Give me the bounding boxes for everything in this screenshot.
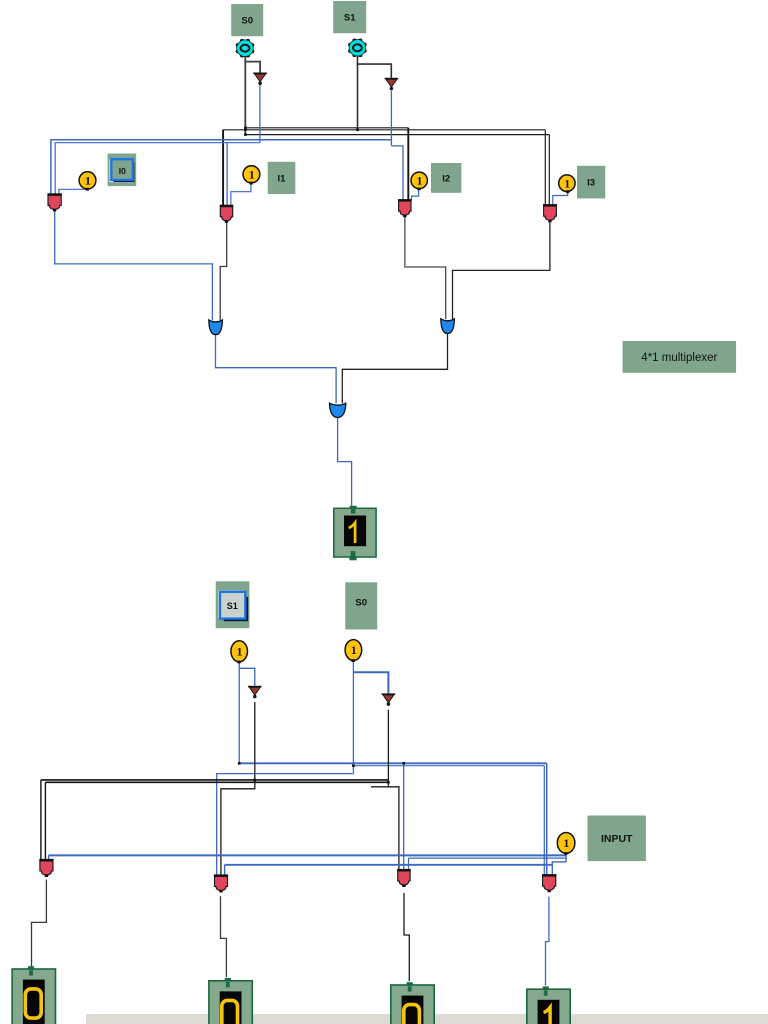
inverter W2 (S0') <box>382 693 396 706</box>
inverter V1 (S0') <box>253 73 267 86</box>
wire U3 output to OR2 <box>405 217 446 319</box>
switch S1 <box>349 39 367 57</box>
wire S1 branch to inverter <box>357 64 392 78</box>
wire U4 output to OR2 <box>453 221 550 319</box>
wire gate U3 select input <box>407 128 409 201</box>
svg-text:INPUT: INPUT <box>601 833 633 845</box>
AND gate U1 (I0) <box>47 193 61 211</box>
AND gate G2 <box>214 874 228 892</box>
wire OR3 output to display <box>338 418 352 508</box>
svg-text:S1: S1 <box>227 601 238 611</box>
wire INPUT to G4 <box>552 862 566 875</box>
source INPUT constant 1 <box>557 833 575 855</box>
svg-text:S1: S1 <box>344 13 356 24</box>
label S1 (top) <box>333 1 366 33</box>
wire G4 select in2 <box>546 763 548 875</box>
AND gate G1 <box>39 859 53 877</box>
source I2 constant 1 <box>411 172 427 190</box>
wire G3 output to display <box>404 893 409 981</box>
wire S0 switch stem <box>244 57 246 135</box>
svg-text:1: 1 <box>237 645 243 659</box>
label I0 (pressed button) <box>108 154 137 187</box>
label 4*1 multiplexer <box>623 341 737 373</box>
wire U2 output to OR1 <box>220 222 227 320</box>
AND gate G4 <box>542 874 556 892</box>
wire I0 to U1 <box>59 189 87 195</box>
label INPUT <box>588 816 646 862</box>
wire INPUT pin stub <box>565 853 567 862</box>
wire G3 input blue <box>408 858 410 870</box>
display OUT (shows 1) <box>334 506 376 561</box>
wire G4 select in1 <box>543 766 545 876</box>
wire inverter W2 output <box>371 710 388 787</box>
wire U3 blue select stub <box>391 146 403 201</box>
svg-text:1: 1 <box>417 174 423 188</box>
source I0 constant 1 <box>79 172 96 191</box>
label I2 <box>431 163 461 193</box>
wire inverter V1 output <box>259 85 261 143</box>
wire gate U2 select input <box>222 130 224 206</box>
wire S1b branch to inverter <box>239 668 255 686</box>
AND gate G3 <box>397 869 411 887</box>
source I1 constant 1 <box>243 166 260 185</box>
svg-text:S0: S0 <box>355 597 367 608</box>
wire I1 to U2 <box>231 183 251 206</box>
source I3 constant 1 <box>559 175 575 193</box>
wire select line B <box>223 129 545 131</box>
wire U1 output to OR1 <box>55 210 213 320</box>
wire gate U4 select input 1 <box>544 130 546 206</box>
wire S0b line L2 <box>353 765 544 767</box>
svg-text:1: 1 <box>85 174 91 188</box>
source S1 bottom <box>231 641 248 664</box>
label S1 (bottom, pressed button) <box>216 581 250 628</box>
wire S0b to G2 <box>217 774 354 876</box>
display D1 (shows 0) <box>12 966 55 1024</box>
source S0 bottom <box>345 640 362 662</box>
wire S0' long line <box>51 140 392 195</box>
wire G4 output to display <box>546 897 549 986</box>
wire G1 black in1 <box>40 780 42 860</box>
OR gate O1 <box>209 320 223 335</box>
label S0 (top) <box>231 4 263 36</box>
wire G2 input blue <box>224 865 226 876</box>
wire INPUT line to G3 <box>409 857 567 859</box>
OR gate O2 <box>441 319 455 334</box>
wire S1b source down <box>238 662 240 764</box>
wire S1' line to U1 <box>55 143 260 195</box>
wire inverter V2 output <box>390 91 392 146</box>
wire G3 select blue <box>403 763 405 870</box>
svg-text:S0: S0 <box>241 16 253 27</box>
wire select line C <box>245 134 549 136</box>
svg-text:I1: I1 <box>278 173 287 184</box>
AND gate U3 (I2) <box>398 199 412 217</box>
junction dots top <box>244 127 247 130</box>
svg-text:1: 1 <box>351 643 357 657</box>
svg-text:I3: I3 <box>587 178 595 189</box>
wire S1b line L1 <box>239 762 547 764</box>
svg-text:1: 1 <box>564 176 570 190</box>
svg-text:4*1 multiplexer: 4*1 multiplexer <box>641 352 717 364</box>
wire I2 to U3 <box>412 189 419 201</box>
wire I3 to U4 <box>553 191 568 205</box>
wire U2 blue select branch <box>226 143 228 206</box>
bottom gray strip <box>86 1014 768 1024</box>
svg-text:I0: I0 <box>119 166 126 176</box>
label I1 <box>268 162 296 194</box>
wire G1 input blue <box>48 855 50 860</box>
OR gate O3 (final) <box>330 403 346 417</box>
label I3 <box>577 166 605 199</box>
wire S1 switch stem <box>357 56 359 130</box>
wire inverter W1 output <box>221 702 255 876</box>
wire S0 branch to inverter <box>244 62 260 73</box>
wire G1 output to display <box>32 880 47 967</box>
svg-text:1: 1 <box>249 168 255 182</box>
display D4 (shows 1) <box>527 986 570 1024</box>
AND gate U4 (I3) <box>543 204 557 222</box>
wire G2 output to display <box>221 896 227 977</box>
wire gate U4 select input 2 <box>548 135 550 206</box>
wire S0b source down <box>352 660 354 773</box>
display D2 (shows 0) <box>209 978 252 1024</box>
svg-text:1: 1 <box>563 836 569 850</box>
wire OR1 output <box>216 334 337 403</box>
svg-text:I2: I2 <box>442 173 450 184</box>
inverter V2 (S1') <box>385 78 399 91</box>
display D3 (shows 0) <box>391 982 434 1024</box>
AND gate U2 (I1) <box>220 205 234 223</box>
junction dots bottom <box>254 779 257 782</box>
wire INPUT line to G2 <box>225 864 553 866</box>
wire INPUT main line <box>49 854 567 856</box>
label S0 (bottom) <box>345 582 377 629</box>
wire G1 black in2 <box>44 782 46 860</box>
wire W2 jog to G3 <box>388 787 399 870</box>
inverter W1 (S1') <box>248 686 262 699</box>
wire black line H2 <box>45 781 388 783</box>
wire OR2 output <box>342 333 447 403</box>
wire select line A <box>245 127 408 129</box>
wire black line H1 <box>41 779 389 781</box>
switch S0 <box>236 39 254 57</box>
wire S0b branch to inverter <box>353 672 388 693</box>
